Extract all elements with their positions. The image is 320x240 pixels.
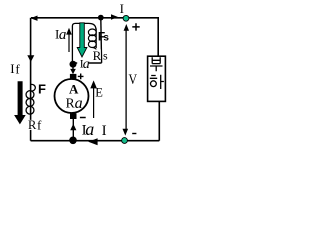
wire right branch lower	[158, 101, 160, 141]
label Rf	[27, 120, 44, 130]
label - (armature)	[80, 117, 86, 119]
series coil right rail	[95, 29, 97, 49]
load label 부 (hangul)	[150, 57, 163, 71]
arrow Ia up annotation	[68, 33, 70, 52]
series coil loops	[88, 29, 96, 36]
voltage arrow V (up head)	[124, 24, 129, 31]
shunt field winding F coil	[30, 84, 35, 91]
arrowhead Ia into armature	[70, 69, 76, 74]
label - (source side)	[132, 133, 136, 135]
voltage arrow V line	[125, 29, 127, 130]
svg-text:E: E	[95, 85, 103, 99]
wire top bus	[31, 17, 159, 19]
arrowhead I current right on top bus	[111, 14, 118, 20]
svg-text:I: I	[10, 61, 14, 76]
voltage arrow V (down head)	[123, 129, 129, 136]
label Ia at armature node	[77, 59, 89, 70]
label + (source side)	[132, 23, 139, 30]
label + (armature)	[78, 74, 84, 80]
terminal dot - (green, bottom)	[122, 138, 128, 144]
label Rs	[92, 49, 101, 60]
series flux arrow (green)	[77, 23, 87, 57]
terminal dot + (green, top)	[123, 15, 129, 21]
arrowhead If current left on top bus	[31, 16, 38, 21]
field flux arrow F (thick black)	[14, 81, 26, 124]
wire bottom bus	[31, 140, 160, 142]
wire from node A down (series field feed)	[100, 18, 103, 63]
svg-text:s: s	[103, 32, 109, 43]
svg-text:F: F	[38, 82, 46, 97]
armature A circle	[55, 79, 89, 113]
wire left branch	[30, 18, 32, 141]
svg-text:a: a	[59, 27, 67, 43]
wire right branch upper	[157, 18, 159, 57]
svg-text:R: R	[66, 95, 75, 110]
armature - terminal block	[70, 113, 77, 119]
arrowhead Ia up into armature bottom	[70, 124, 76, 130]
arrowhead If down on left branch	[27, 55, 34, 62]
svg-text:V: V	[129, 72, 138, 88]
svg-text:a: a	[75, 95, 83, 112]
arrowhead I left on bottom bus	[88, 138, 97, 145]
svg-text:f: f	[15, 62, 20, 77]
svg-text:a: a	[83, 57, 90, 72]
junction dot bottom node	[69, 137, 77, 145]
svg-text:R: R	[28, 118, 37, 132]
wire armature node to + terminal	[72, 64, 74, 70]
load label 하 (hangul)	[150, 75, 164, 89]
svg-text:I: I	[120, 1, 124, 16]
armature + terminal block	[70, 74, 77, 79]
wire armature bottom	[72, 119, 74, 141]
series coil exit tail	[93, 48, 97, 53]
wire series field bottom to armature node	[73, 62, 102, 64]
junction dot node A (top)	[98, 15, 104, 21]
junction dot armature top node	[70, 61, 77, 68]
EMF arrow E	[93, 87, 95, 118]
series field winding Fs (loop body)	[72, 23, 96, 64]
svg-text:f: f	[37, 117, 42, 132]
load box (부하)	[148, 56, 166, 101]
svg-text:I: I	[102, 123, 107, 139]
svg-text:a: a	[85, 119, 94, 139]
svg-text:s: s	[103, 49, 108, 63]
svg-text:R: R	[93, 48, 102, 63]
